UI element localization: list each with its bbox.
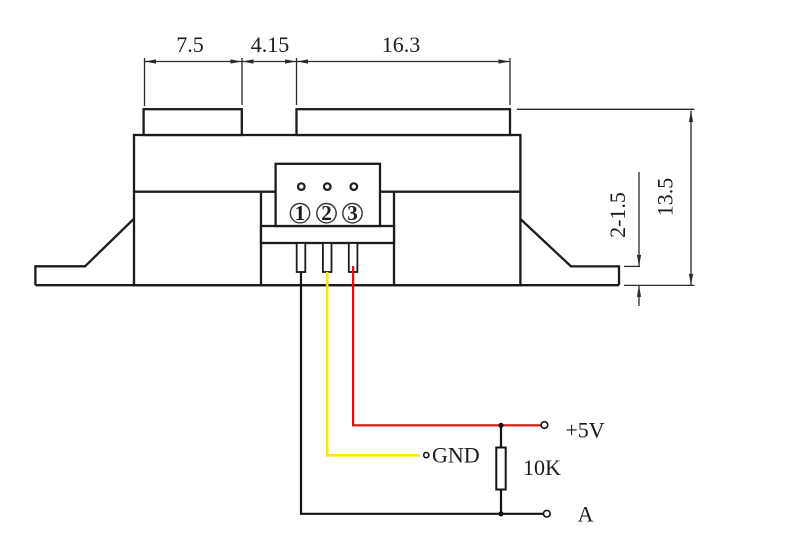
arrow 2-1.5 up <box>637 285 641 297</box>
svg-text:2: 2 <box>321 201 332 225</box>
terminal GND <box>424 453 429 458</box>
extension line x144 <box>144 58 146 106</box>
svg-text:GND: GND <box>432 443 480 468</box>
pin 3 <box>349 243 358 272</box>
arrow 13.5 bottom <box>689 274 693 286</box>
main body rectangle <box>134 135 520 285</box>
arrow 2-1.5 down <box>637 255 641 267</box>
boss right edge <box>393 192 395 286</box>
arrowheads <box>145 59 694 297</box>
wire black signal <box>301 272 543 514</box>
wire red +5V <box>353 266 540 425</box>
left mounting wing <box>35 219 134 286</box>
right mounting wing <box>520 219 619 285</box>
svg-text:4.15: 4.15 <box>251 32 290 57</box>
svg-text:+5V: +5V <box>565 418 604 443</box>
dimension lines <box>145 58 695 306</box>
svg-text:3: 3 <box>347 201 358 225</box>
pin 2 label circled <box>317 201 336 225</box>
arrow 16.3 right <box>499 59 511 63</box>
extension line x242 <box>241 58 243 105</box>
top dimension line <box>145 61 511 63</box>
svg-text:2-1.5: 2-1.5 <box>605 192 630 238</box>
top-right block <box>297 109 511 135</box>
arrow 13.5 top <box>689 111 693 123</box>
arrow 16.3 left <box>297 59 309 63</box>
top-left block <box>144 109 242 135</box>
extension line x296 <box>296 58 298 105</box>
terminal A <box>544 510 551 517</box>
pin 1 label circled <box>290 201 309 225</box>
hole 1 <box>298 183 305 190</box>
pin 1 <box>297 243 306 272</box>
terminal +5V <box>541 422 548 429</box>
arrow 4.15 right <box>285 59 297 63</box>
dimension line 13.5 <box>690 111 692 286</box>
svg-text:1: 1 <box>295 201 306 225</box>
arrow 4.15 left <box>242 59 254 63</box>
body step line <box>134 191 520 193</box>
connector flange <box>261 226 394 243</box>
svg-text:A: A <box>578 502 594 527</box>
hole 3 <box>351 183 358 190</box>
extension tick 2-1.5 <box>624 265 640 267</box>
sensor body outline <box>35 109 619 285</box>
arrow 7.5 left <box>145 59 157 63</box>
arrow 7.5 right <box>231 59 243 63</box>
resistor R 10K <box>496 425 505 514</box>
wire yellow GND <box>327 272 420 455</box>
svg-text:10K: 10K <box>523 455 561 480</box>
dimension line 2-1.5 lower <box>638 285 640 306</box>
svg-text:16.3: 16.3 <box>382 32 421 57</box>
pin 3 label circled <box>343 201 362 225</box>
junction dot bottom <box>498 511 503 516</box>
pin 2 <box>323 243 332 272</box>
extension line top right <box>517 108 695 110</box>
extension line x510 <box>509 58 511 105</box>
dimension line 2-1.5 upper <box>638 172 640 266</box>
extension line bottom right <box>624 284 695 286</box>
boss left edge <box>260 192 262 286</box>
connector box <box>276 164 380 226</box>
svg-text:13.5: 13.5 <box>653 178 678 217</box>
bottom base line <box>35 284 619 286</box>
svg-text:7.5: 7.5 <box>176 32 204 57</box>
junction dot top <box>498 423 503 428</box>
hole 2 <box>324 183 331 190</box>
